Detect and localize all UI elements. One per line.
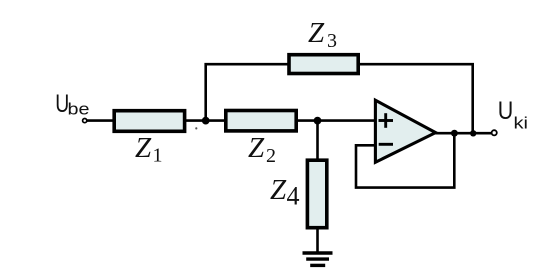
wire: input terminal to Z1 [87, 119, 114, 122]
node A (junction Z1/Z2/Z3) [202, 117, 210, 125]
wire: node B down to Z4 [316, 121, 319, 160]
wire: op-amp output to terminal [435, 132, 492, 135]
ground [303, 253, 333, 265]
feedback wire: - input, around bottom, to output node [356, 133, 454, 187]
output terminal (Uki) [492, 130, 497, 135]
op-amp + input marker [379, 113, 394, 128]
svg-text:be: be [68, 99, 90, 118]
svg-text:1: 1 [153, 145, 163, 167]
wire: Z2 to op-amp + input [296, 119, 375, 122]
op-amp - input marker [379, 143, 393, 146]
svg-text:3: 3 [327, 30, 337, 52]
stray dot [195, 127, 197, 129]
impedance Z3 [289, 55, 358, 74]
impedance Z4 [307, 160, 326, 228]
wire: node A up and right to Z3 [206, 64, 288, 120]
impedance Z2 [226, 111, 296, 131]
svg-text:Z: Z [308, 17, 325, 49]
op-amp U1 [375, 100, 435, 162]
wire: Z3 right, down to output node [359, 64, 473, 133]
node: feedback junction [451, 130, 458, 137]
wire: Z4 to ground [316, 228, 319, 253]
svg-text:Z: Z [135, 132, 152, 164]
node: Z3 junction [470, 130, 476, 136]
svg-text:Z: Z [248, 132, 265, 164]
svg-text:4: 4 [287, 181, 300, 210]
svg-text:ki: ki [514, 114, 529, 133]
node B (junction Z2/Z4/op-amp) [314, 117, 322, 125]
wire: Z1 to Z2 [186, 119, 224, 122]
svg-text:2: 2 [266, 145, 276, 167]
svg-text:U: U [498, 97, 514, 125]
impedance Z1 [114, 111, 184, 132]
input terminal (Ube) [83, 119, 87, 123]
svg-text:Z: Z [270, 174, 287, 206]
